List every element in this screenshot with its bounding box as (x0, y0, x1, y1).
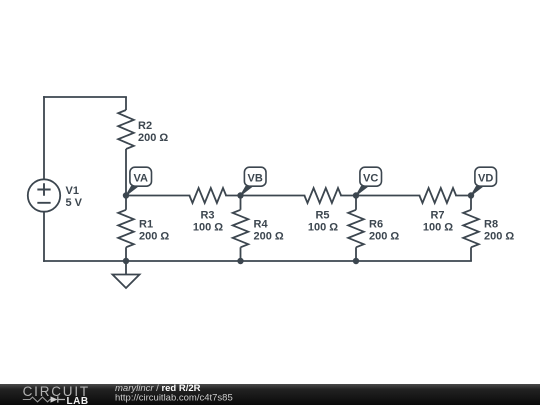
node VA flag (126, 167, 152, 195)
resistor R5 (304, 188, 341, 203)
node VB flag (241, 167, 267, 195)
junction dot VB (237, 192, 243, 198)
resistor R8 (463, 196, 479, 262)
junction dot VC (353, 192, 359, 198)
svg-text:100 Ω: 100 Ω (193, 221, 223, 233)
svg-text:200 Ω: 200 Ω (484, 230, 514, 242)
wire from V1 to bottom rail (43, 212, 45, 261)
svg-text:R2: R2 (138, 120, 152, 132)
svg-text:5 V: 5 V (66, 197, 83, 209)
wire left from top rail to V1 (43, 97, 45, 179)
CircuitLab logo (23, 384, 90, 405)
svg-text:LAB: LAB (67, 396, 89, 405)
svg-text:R4: R4 (254, 219, 269, 231)
resistor R6 (348, 196, 364, 262)
svg-text:R6: R6 (369, 219, 383, 231)
svg-text:VB: VB (248, 173, 263, 185)
svg-text:http://circuitlab.com/c4t7s85: http://circuitlab.com/c4t7s85 (115, 392, 233, 403)
label R6 200 Ω (369, 219, 399, 243)
svg-text:100 Ω: 100 Ω (423, 221, 453, 233)
wire R3 to VB (226, 195, 240, 197)
label R1 200 Ω (139, 219, 169, 243)
wire bottom rail (44, 260, 471, 262)
junction dot bottom rail at R1/ground (123, 258, 129, 264)
svg-text:R8: R8 (484, 219, 498, 231)
label V1 5 V (66, 185, 83, 209)
svg-text:VA: VA (133, 173, 148, 185)
node VD flag (471, 167, 497, 195)
svg-text:200 Ω: 200 Ω (254, 230, 284, 242)
svg-text:V1: V1 (66, 185, 79, 197)
resistor R4 (233, 196, 249, 262)
wire VB to R5 (241, 195, 305, 197)
label R8 200 Ω (484, 219, 514, 243)
svg-text:R3: R3 (200, 210, 214, 222)
wire R7 to VD (456, 195, 471, 197)
footer title text (115, 383, 233, 403)
label R2 200 Ω (138, 120, 168, 144)
footer bar (0, 384, 540, 405)
resistor R2 (118, 97, 134, 196)
wire R5 to VC (341, 195, 356, 197)
svg-text:200 Ω: 200 Ω (369, 230, 399, 242)
svg-text:R5: R5 (315, 210, 329, 222)
label R4 200 Ω (254, 219, 284, 243)
label R5 100 Ω (308, 210, 338, 234)
junction dot bottom rail at R6 (353, 258, 359, 264)
node VC flag (356, 167, 382, 195)
resistor R1 (118, 196, 134, 262)
svg-text:200 Ω: 200 Ω (138, 132, 168, 144)
junction dot bottom rail at R4 (237, 258, 243, 264)
wire VC to R7 (356, 195, 419, 197)
label R7 100 Ω (423, 210, 453, 234)
svg-text:200 Ω: 200 Ω (139, 230, 169, 242)
wire top rail (44, 96, 126, 98)
svg-text:R7: R7 (430, 210, 444, 222)
resistor R3 (189, 188, 226, 203)
svg-text:VD: VD (478, 173, 493, 185)
svg-text:100 Ω: 100 Ω (308, 221, 338, 233)
wire VA to R3 (126, 195, 189, 197)
voltage source V1 (28, 179, 60, 211)
junction dot VD (468, 192, 474, 198)
resistor R7 (419, 188, 456, 203)
svg-text:VC: VC (363, 173, 378, 185)
ground (113, 261, 140, 288)
junction dot VA (123, 192, 129, 198)
label R3 100 Ω (193, 210, 223, 234)
svg-text:R1: R1 (139, 219, 153, 231)
